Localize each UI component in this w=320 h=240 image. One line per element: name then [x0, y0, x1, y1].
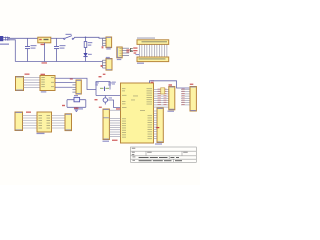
component X1 small	[117, 47, 130, 60]
connector J5	[70, 78, 82, 94]
blue labels right of reset circuit	[112, 82, 116, 83]
red label left of crystal	[62, 105, 65, 106]
blue label of oscillator	[109, 97, 112, 98]
red net labels MCU right	[158, 89, 167, 105]
wire reset bottom to MCU	[96, 95, 121, 97]
resistor R3 in reset circuit	[108, 82, 111, 85]
wire bundle J4 to U2	[24, 78, 41, 88]
blue label between header rows	[136, 54, 140, 55]
header JP1 bottom row	[137, 57, 169, 64]
connector J10 tall right of MCU	[155, 108, 163, 145]
IC U4	[37, 112, 52, 134]
connector J12	[65, 108, 79, 131]
red net labels J9	[182, 89, 185, 105]
connector J8	[168, 84, 175, 111]
wire bundle MCU to J10	[154, 111, 158, 139]
wire ground rail bottom	[15, 61, 102, 63]
resistor R1	[84, 37, 92, 47]
wire MCU top to J9	[150, 81, 191, 88]
small component in bundle	[161, 88, 165, 94]
wire switch to connector	[74, 37, 106, 39]
connector J7 long	[99, 107, 110, 142]
title block text	[132, 148, 188, 161]
wire power rail top	[8, 37, 38, 39]
connector J3 4-pin	[101, 57, 112, 75]
switch S1	[64, 34, 74, 40]
title block date and file strings	[139, 157, 182, 161]
blue label near crystal ground	[79, 108, 83, 109]
node LED branch junction	[85, 37, 87, 39]
LED D1	[83, 48, 87, 62]
MCU U3	[121, 80, 155, 143]
capacitor legs of crystal	[67, 100, 86, 108]
capacitor C2	[54, 38, 66, 61]
red label at MCU pin	[116, 108, 120, 109]
red label MCU bottom left	[112, 140, 118, 141]
wire bundle J7 to MCU	[109, 119, 120, 137]
wire U2 wraparound to reset	[55, 78, 96, 89]
capacitor C1	[25, 38, 37, 61]
wire regulator ground pin	[44, 43, 46, 62]
header JP1 top row	[137, 38, 169, 45]
wire U2 to J5 pin1	[55, 82, 72, 84]
red labels left of header	[133, 47, 137, 53]
connector J9	[190, 84, 197, 111]
oscillator circle Y2	[103, 96, 107, 105]
connector J4 left block	[16, 74, 30, 91]
wire bundle to J9	[181, 90, 190, 105]
capacitor C3 reset center	[100, 87, 109, 92]
red label GND near ground rail	[42, 62, 48, 63]
voltage regulator U1 7805	[38, 37, 51, 45]
red label below reset	[95, 99, 98, 100]
IC U2	[40, 74, 55, 93]
wire power return drop	[8, 40, 15, 62]
ground net label power rail	[88, 54, 92, 55]
reset circuit top wire	[96, 82, 110, 96]
resistor R2 in reset circuit	[95, 82, 98, 85]
wire J7 top pin to MCU	[109, 109, 120, 111]
connector J2 4-pin	[102, 37, 112, 50]
wire oscillator to MCU	[108, 100, 122, 108]
wire regulator output	[51, 37, 64, 39]
title block	[131, 147, 197, 162]
ground symbol crystal	[74, 107, 79, 111]
wire bundle U4 to J12	[52, 116, 66, 129]
capacitor C0 input ticks	[6, 37, 8, 41]
connector J1 power input	[0, 36, 10, 45]
wire U2 to J5 pin3	[55, 86, 72, 88]
wire bundle J11 to U4	[23, 116, 38, 129]
crystal Y1	[67, 95, 86, 102]
header JP1 pin field	[139, 44, 167, 57]
red label above reset circuit	[99, 76, 102, 77]
wire MCU to J8 bundle	[154, 90, 169, 108]
connector J11 bottom left	[15, 112, 31, 131]
